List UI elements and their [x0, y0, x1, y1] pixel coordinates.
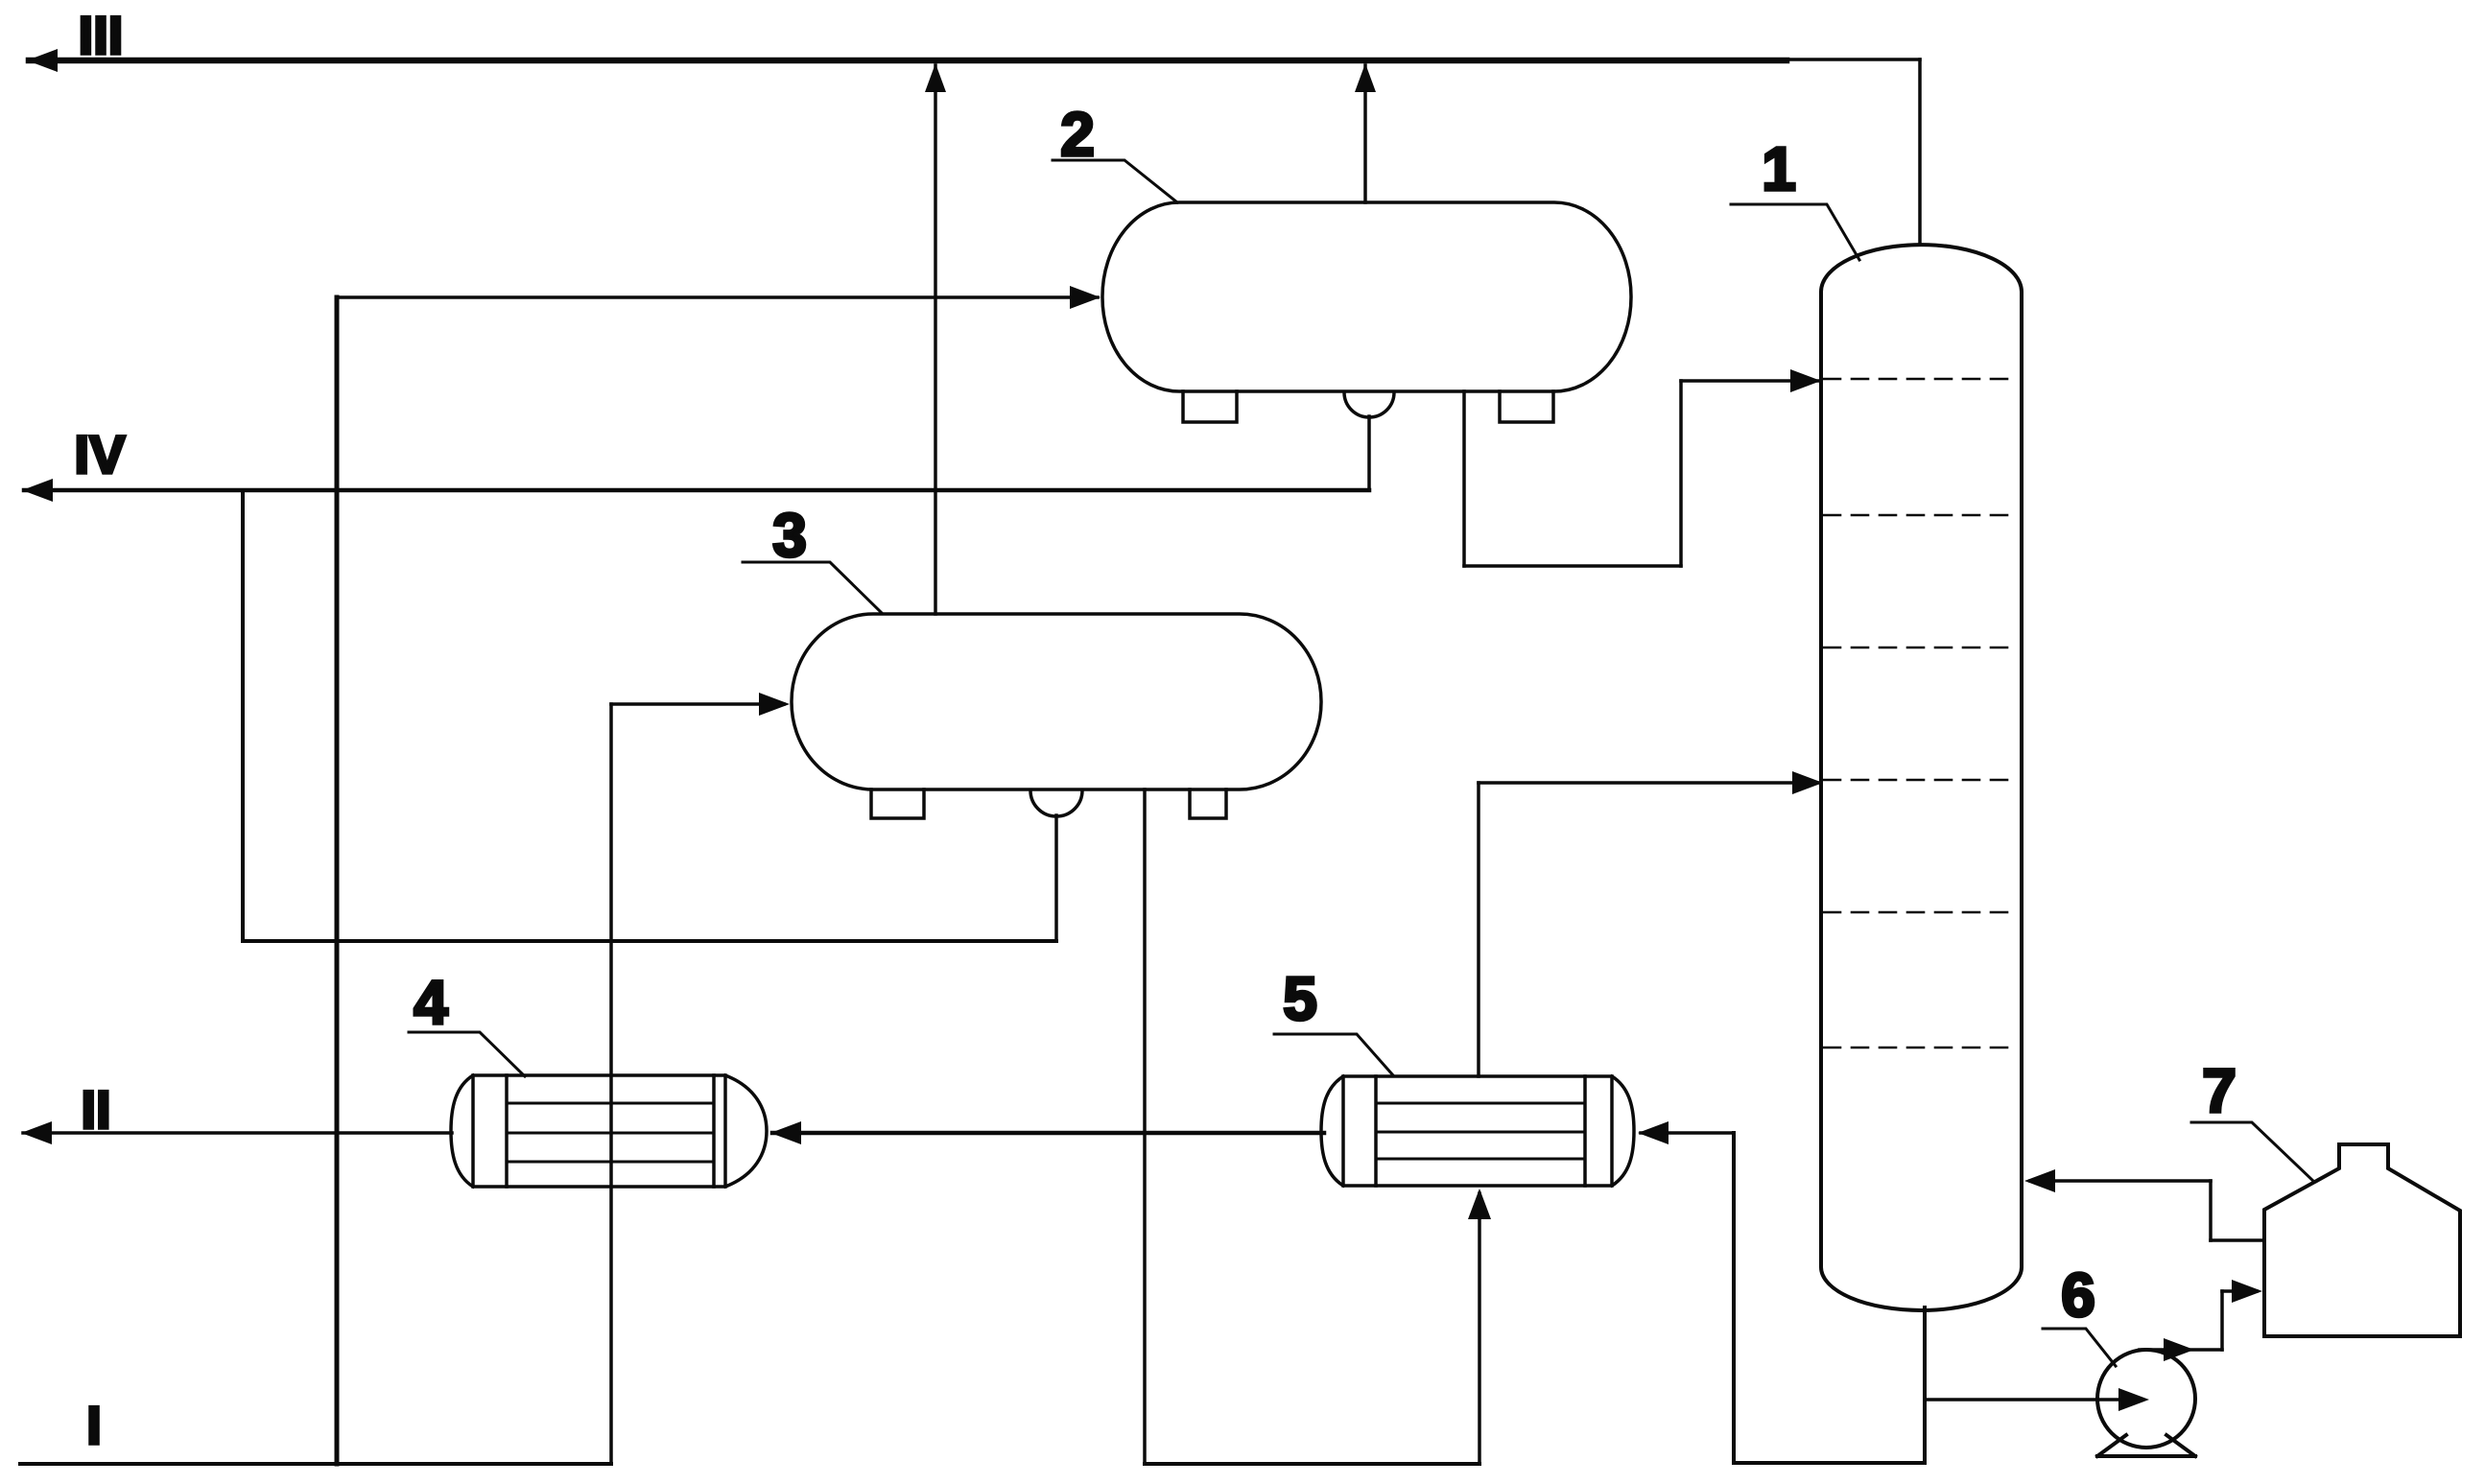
vessel 3 (horizontal drum) [792, 614, 1321, 789]
wire: hot stream riser at x1807 [1732, 1133, 1736, 1463]
wire: takeoff riser to column top feed [1679, 381, 1683, 566]
label 4 leader line [409, 1032, 525, 1076]
svg-text:7: 7 [2202, 1056, 2236, 1125]
svg-text:III: III [79, 5, 124, 65]
arrowhead: feed into vessel 3 [759, 693, 790, 716]
wire: bottom line to exchanger 5 [1145, 1462, 1479, 1466]
column tray 4 (dashed) [1824, 779, 2019, 782]
wire: riser into exchanger 5 bottom [1478, 1193, 1481, 1464]
pump 6 base pedestal [2097, 1435, 2195, 1456]
heat exchanger 5 right cap [1612, 1076, 1634, 1186]
heat exchanger 5 tube line middle [1376, 1131, 1585, 1134]
label 5 leader line [1274, 1034, 1393, 1075]
arrowhead: into column mid tray [1792, 771, 1823, 794]
wire: vessel 3 right bottom takeoff down [1143, 789, 1147, 1464]
vessel 2 right support foot [1500, 391, 1553, 422]
arrowhead: vessel 3 riser into III [925, 63, 946, 92]
wire: vessel 3 bottoms pipe down [1054, 815, 1058, 941]
wire: discharge into tank [2222, 1289, 2257, 1293]
svg-text:2: 2 [1060, 100, 1095, 169]
wire: vessel 3 top vent riser [934, 65, 937, 614]
arrowhead: into column top tray [1790, 369, 1821, 392]
wire: discharge riser [2220, 1291, 2224, 1350]
heat exchanger 5 tube line bottom [1376, 1158, 1585, 1161]
column tray 2 (dashed) [1824, 514, 2019, 517]
wire: vessel 2 right bottom takeoff down [1462, 391, 1466, 566]
arrowhead: into exchanger 5 right cap [1638, 1121, 1668, 1144]
vessel 2 bottom nozzle [1344, 392, 1394, 417]
arrowhead: into exchanger 5 bottom [1468, 1189, 1491, 1219]
heat exchanger 5 left tube sheet [1374, 1076, 1378, 1186]
label 7 leader line [2191, 1122, 2314, 1182]
wire: vessel 2 bottoms to IV line [1367, 416, 1371, 490]
arrowhead: stream IV outlet (left) [22, 479, 53, 502]
wire: tank to column feed line [2030, 1179, 2211, 1183]
heat exchanger 4 right tube sheet [712, 1075, 716, 1187]
vessel 2 left support foot [1183, 391, 1237, 422]
arrowhead: pump discharge mid arrow [2164, 1338, 2194, 1361]
wire: tank outlet riser [2209, 1181, 2213, 1240]
svg-text:3: 3 [772, 501, 807, 570]
heat exchanger 5 tube line top [1376, 1102, 1585, 1105]
wire: bottom run from column downpipe [1734, 1461, 1925, 1465]
arrowhead: vessel 2 riser into III [1355, 63, 1376, 92]
wire: pump discharge line [2140, 1348, 2222, 1352]
wire: feed branch riser to vessel 3 [609, 704, 613, 1464]
heat exchanger 5 right tube sheet [1583, 1076, 1587, 1186]
svg-text:6: 6 [2061, 1260, 2095, 1330]
column tray 5 (dashed) [1824, 911, 2019, 914]
vessel 3 right support foot [1190, 789, 1226, 818]
column tray 3 (dashed) [1824, 647, 2019, 649]
wire: stream III header line [29, 58, 1787, 64]
label 1 leader line [1731, 204, 1859, 260]
label 6 leader line [2043, 1329, 2116, 1366]
heat exchanger 5 left cap [1321, 1076, 1343, 1186]
wire: stream I bottom feed line [20, 1462, 611, 1466]
svg-text:5: 5 [1283, 964, 1317, 1033]
wire: column bottoms downpipe [1923, 1307, 1927, 1463]
column tray 6 (dashed) [1824, 1047, 2019, 1049]
vessel 3 bottom nozzle [1030, 790, 1082, 816]
pump 6 (circle) [2097, 1350, 2195, 1448]
arrowhead: stream III outlet (left) [27, 49, 58, 72]
wire: column mid feed line [1479, 781, 1820, 785]
wire: column overhead riser [1918, 59, 1922, 245]
wire: feed line to vessel 3 [611, 702, 784, 706]
heat exchanger 4 left tube sheet [505, 1075, 509, 1187]
heat exchanger 4 tube line bottom [507, 1161, 714, 1164]
heat exchanger 4 tube line top [507, 1102, 714, 1105]
arrowhead: into exchanger 4 right cap [770, 1121, 801, 1144]
arrowhead: into pump center [2118, 1388, 2149, 1411]
wire: III line thin right portion to column riser corner [1787, 58, 1920, 61]
svg-text:I: I [86, 1395, 102, 1455]
vessel 3 left support foot [871, 789, 924, 818]
column tray 1 (dashed) [1824, 378, 2019, 381]
wire: vessel 3 bottoms horizontal to left [243, 939, 1056, 943]
wire: vessel 2 top vent riser [1363, 65, 1367, 202]
wire: column top feed line [1681, 379, 1818, 383]
svg-text:IV: IV [75, 424, 126, 484]
label 3 leader line [743, 562, 882, 613]
heat exchanger 4 shell [473, 1075, 725, 1187]
svg-text:1: 1 [1762, 134, 1796, 203]
wire: stream IV line [24, 488, 1369, 493]
heat exchanger 4 left cap [451, 1075, 473, 1187]
wire: pump suction line [1925, 1398, 2122, 1402]
wire: column bottoms to exchanger 5 inlet [1641, 1131, 1734, 1135]
arrowhead: into tank 7 [2232, 1280, 2262, 1303]
wire: exchanger 5 top outlet riser [1477, 783, 1480, 1076]
heat exchanger 5 shell [1343, 1076, 1612, 1186]
vessel 2 (horizontal drum) [1102, 202, 1631, 391]
wire: feed branch riser to vessel 2 (thick vertical) [335, 297, 340, 1464]
wire: stream II product line from exchanger 4 [23, 1131, 452, 1135]
column 1 (distillation column) [1821, 245, 2022, 1310]
heat exchanger 4 right cap [725, 1075, 767, 1187]
label 2 leader line [1053, 160, 1177, 202]
wire: exchanger 5 to exchanger 4 pipe [772, 1131, 1324, 1136]
arrowhead: stream II outlet (left) [21, 1121, 52, 1144]
wire: feed line to vessel 2 [337, 295, 1098, 299]
svg-text:II: II [81, 1079, 110, 1140]
tank 7 (solvent tank) [2264, 1144, 2460, 1336]
arrowhead: feed into vessel 2 [1070, 286, 1100, 309]
wire: takeoff horizontal at y590 [1464, 564, 1681, 568]
svg-text:4: 4 [414, 968, 448, 1037]
heat exchanger 4 tube line middle [507, 1132, 714, 1135]
wire: tank outlet horizontal at y1293 [2211, 1238, 2264, 1242]
arrowhead: into column right side [2024, 1169, 2055, 1192]
wire: vessel 3 bottoms riser to IV [241, 490, 245, 941]
